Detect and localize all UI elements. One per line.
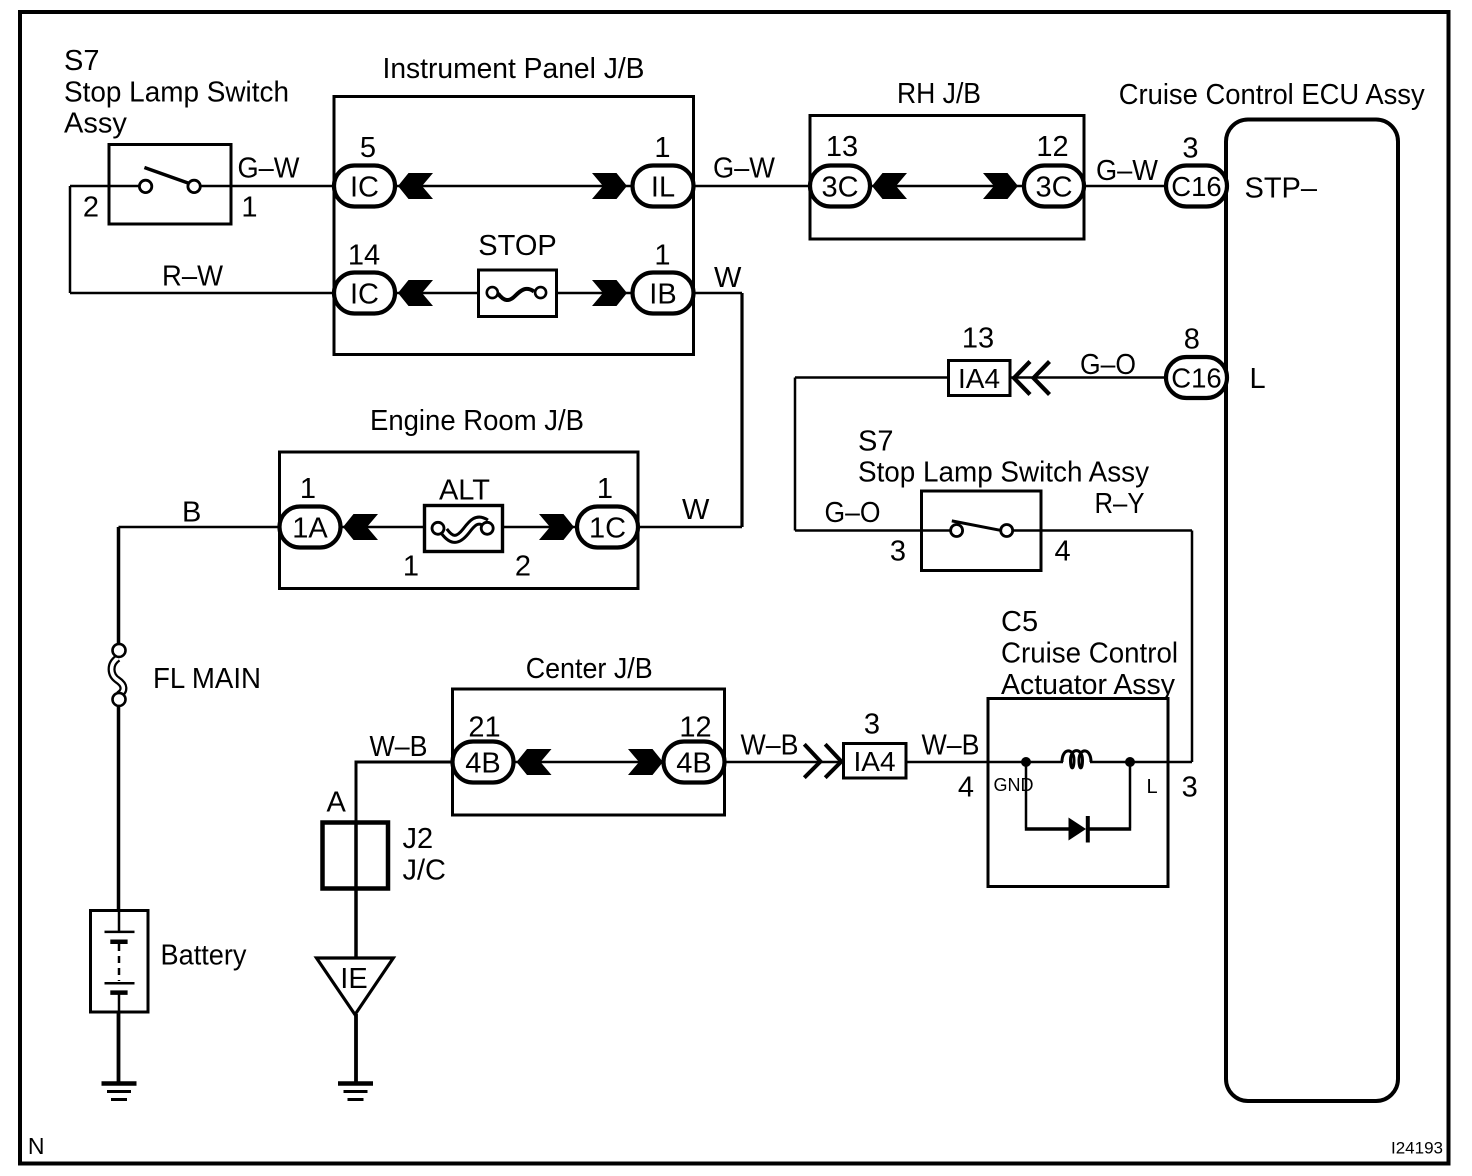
wire 4B to 4B inside Center J/B: [512, 761, 664, 764]
svg-text:Instrument Panel J/B: Instrument Panel J/B: [383, 53, 645, 85]
RH J/B box: [810, 116, 1084, 240]
FL MAIN fusible link: [112, 658, 124, 695]
wire J2 vertical through: [354, 822, 358, 958]
connector 1A pin1: [280, 507, 341, 548]
wire W-B 4B to arrows: [723, 761, 843, 764]
arrow chevron left at 1A: [343, 514, 378, 540]
ground below IE: [338, 1084, 373, 1100]
BOXES: [91, 97, 1399, 1102]
connector 1C pin1: [577, 507, 638, 548]
wire IE to ground: [354, 1014, 358, 1082]
svg-text:3: 3: [890, 536, 906, 568]
svg-text:4B: 4B: [465, 748, 500, 780]
svg-text:IB: IB: [649, 279, 676, 311]
svg-text:8: 8: [1184, 324, 1200, 356]
svg-text:Center J/B: Center J/B: [526, 653, 653, 685]
svg-text:3: 3: [1182, 772, 1198, 804]
svg-text:ALT: ALT: [439, 475, 490, 507]
svg-text:3C: 3C: [1035, 172, 1072, 204]
svg-text:W: W: [682, 494, 710, 526]
connector 4B pin12: [664, 742, 725, 783]
svg-text:1C: 1C: [589, 513, 626, 545]
svg-text:Assy: Assy: [64, 108, 127, 140]
svg-text:S7: S7: [64, 45, 99, 77]
arrow open chevrons G-O: [1014, 362, 1050, 395]
svg-text:G–O: G–O: [825, 497, 881, 529]
svg-text:FL MAIN: FL MAIN: [153, 663, 261, 695]
wire R-W to IC row2: [70, 292, 335, 295]
node L junction dot: [1125, 757, 1135, 767]
connector IB pin1: [633, 273, 694, 314]
switch S7 upper contacts: [139, 180, 151, 192]
diode D1: [1069, 818, 1087, 841]
arrow chevron left at 4B pin21: [517, 749, 552, 775]
CONNECTOR OVALS: [280, 166, 1228, 783]
svg-text:12: 12: [1036, 131, 1068, 163]
IA4 box lower: [844, 744, 907, 779]
ALT fuse box: [425, 506, 503, 552]
switch S7 lower lever: [952, 521, 1000, 530]
arrow chevron left at IC pin5: [398, 173, 433, 199]
svg-text:IA4: IA4: [958, 363, 1000, 394]
svg-text:I24193: I24193: [1391, 1139, 1443, 1158]
svg-text:J/C: J/C: [403, 855, 447, 887]
svg-text:IE: IE: [340, 963, 367, 995]
svg-text:2: 2: [515, 551, 531, 583]
svg-text:S7: S7: [858, 426, 893, 458]
arrow chevron right at 1C: [539, 514, 574, 540]
switch S7 box lower: [922, 491, 1042, 571]
svg-text:4: 4: [1055, 536, 1071, 568]
J2 J/C box: [323, 823, 389, 889]
svg-text:3: 3: [864, 709, 880, 741]
svg-text:2: 2: [83, 192, 99, 224]
svg-text:IA4: IA4: [853, 746, 895, 777]
arrow open chevrons W-B: [804, 744, 841, 777]
arrow chevron left at IC pin14: [398, 280, 433, 306]
svg-text:G–O: G–O: [1080, 349, 1136, 381]
wire battery feed vertical lower: [117, 706, 121, 912]
wire 3C to 3C inside RH J/B: [869, 185, 1025, 188]
svg-text:R–Y: R–Y: [1095, 488, 1145, 520]
svg-text:1: 1: [654, 240, 670, 272]
svg-text:R–W: R–W: [162, 261, 224, 293]
svg-text:GND: GND: [994, 775, 1034, 795]
battery box: [91, 911, 149, 1013]
svg-text:13: 13: [826, 131, 858, 163]
wire W-B Center J/B left lead: [356, 762, 453, 822]
wire G-W switch1 pin1 to IC: [200, 185, 335, 188]
svg-text:Battery: Battery: [161, 940, 247, 972]
svg-text:IC: IC: [350, 279, 379, 311]
svg-text:1: 1: [654, 132, 670, 164]
wire G-W IL to RH J/B: [693, 185, 811, 188]
svg-text:L: L: [1147, 776, 1158, 798]
Cruise Control ECU box: [1226, 120, 1398, 1102]
svg-text:J2: J2: [403, 823, 434, 855]
svg-text:C5: C5: [1001, 606, 1038, 638]
svg-text:STOP: STOP: [478, 230, 556, 262]
svg-text:1: 1: [403, 551, 419, 583]
diode branch wires: [1026, 762, 1130, 828]
wire G-O vertical: [794, 378, 797, 531]
node GND junction dot: [1021, 757, 1031, 767]
svg-text:4: 4: [958, 772, 974, 804]
svg-text:13: 13: [962, 323, 994, 355]
svg-text:W–B: W–B: [741, 730, 799, 762]
wire W from IB: [693, 292, 742, 295]
svg-text:21: 21: [468, 712, 500, 744]
wire B to 1A: [119, 526, 281, 529]
wire battery to ground: [117, 1011, 121, 1082]
battery cell plates: [118, 912, 121, 931]
connector 4B pin21: [453, 742, 514, 783]
svg-text:14: 14: [348, 240, 380, 272]
connector IC pin14: [334, 273, 395, 314]
ground IE triangle: [317, 958, 394, 1015]
Instrument Panel J/B box: [334, 97, 694, 355]
wire actuator L segment: [1090, 761, 1192, 764]
svg-text:Cruise Control ECU Assy: Cruise Control ECU Assy: [1119, 79, 1425, 111]
wire IC to STOP fuse: [394, 292, 480, 295]
wire W to 1C: [637, 526, 742, 529]
Cruise Control Actuator box: [988, 699, 1168, 887]
wire R-Y vertical: [1191, 531, 1194, 763]
wire actuator GND segment: [988, 761, 1063, 764]
wire G-O switch2 pin3: [795, 529, 951, 532]
ground below battery: [102, 1084, 137, 1100]
STOP fuse element: [498, 289, 534, 300]
svg-text:3C: 3C: [821, 172, 858, 204]
svg-text:G–W: G–W: [713, 153, 776, 185]
svg-text:IL: IL: [651, 172, 675, 204]
STOP fuse box: [479, 270, 557, 317]
wire W-B IA4 to actuator: [906, 761, 988, 764]
svg-text:4B: 4B: [676, 748, 711, 780]
svg-text:Stop Lamp Switch: Stop Lamp Switch: [64, 76, 289, 108]
Engine Room J/B box: [280, 452, 639, 589]
svg-text:Cruise Control: Cruise Control: [1001, 638, 1178, 670]
switch S7 lower contacts: [951, 525, 963, 537]
svg-text:N: N: [28, 1133, 45, 1159]
svg-text:1: 1: [300, 473, 316, 505]
svg-text:B: B: [182, 497, 201, 529]
svg-text:Engine Room J/B: Engine Room J/B: [370, 405, 584, 437]
switch S7 box upper: [109, 145, 231, 225]
wire switch1 pin2 vertical: [69, 186, 72, 293]
arrow chevron left at 3C pin13: [872, 173, 907, 199]
wire W vertical: [740, 293, 743, 527]
wire 1A to ALT fuse: [340, 526, 426, 529]
connector C16 pin8: [1166, 357, 1227, 398]
svg-text:C16: C16: [1171, 171, 1221, 202]
arrow chevron right at 3C pin12: [983, 173, 1018, 199]
connector 3C pin13: [810, 166, 870, 207]
svg-text:W–B: W–B: [370, 731, 428, 763]
arrow chevron right at 4B pin12: [628, 749, 663, 775]
svg-text:A: A: [327, 787, 347, 819]
svg-text:W–B: W–B: [922, 730, 980, 762]
svg-text:C16: C16: [1171, 363, 1221, 394]
svg-text:Stop Lamp Switch Assy: Stop Lamp Switch Assy: [858, 457, 1149, 489]
wire ALT fuse to 1C: [502, 526, 578, 529]
inductor actuator coil: [1062, 751, 1091, 768]
svg-text:W: W: [714, 262, 742, 294]
svg-text:12: 12: [679, 712, 711, 744]
COMPONENT SYMBOLS: [102, 168, 1136, 1100]
Center J/B box: [453, 689, 725, 815]
svg-text:Actuator Assy: Actuator Assy: [1001, 669, 1175, 701]
wire STOP fuse to IB: [555, 292, 634, 295]
wire G-W 3C to C16 pin3: [1083, 185, 1167, 188]
connector IC pin5: [334, 166, 395, 207]
svg-text:1: 1: [241, 192, 257, 224]
connector IL pin1: [633, 166, 694, 207]
wire G-W switch1 pin2 lead: [70, 185, 140, 188]
svg-text:G–W: G–W: [1096, 155, 1159, 187]
wire G-O IA4 to C16 pin8: [1010, 376, 1167, 379]
connector 3C pin12: [1024, 166, 1084, 207]
wire IC to IL inside Instrument Panel J/B: [394, 185, 634, 188]
svg-text:G–W: G–W: [238, 153, 301, 185]
svg-text:1: 1: [597, 473, 613, 505]
wire G-O to IA4 top: [795, 376, 949, 379]
svg-text:1A: 1A: [292, 513, 328, 545]
svg-text:STP–: STP–: [1245, 172, 1318, 204]
svg-text:L: L: [1250, 363, 1266, 395]
switch S7 upper lever: [144, 168, 188, 184]
svg-text:RH J/B: RH J/B: [897, 78, 981, 110]
wire switch2 pin4 inner: [1012, 529, 1041, 532]
wire battery feed vertical upper: [117, 527, 121, 644]
svg-text:3: 3: [1182, 133, 1198, 165]
svg-text:5: 5: [360, 132, 376, 164]
arrow chevron right at IL: [592, 173, 627, 199]
ALT fusible link element: [444, 521, 486, 539]
IA4 box upper: [949, 361, 1011, 396]
wire R-Y switch2 pin4: [1041, 529, 1192, 532]
arrow chevron right at IB: [592, 280, 627, 306]
svg-text:IC: IC: [350, 172, 379, 204]
connector C16 pin3: [1166, 166, 1227, 207]
